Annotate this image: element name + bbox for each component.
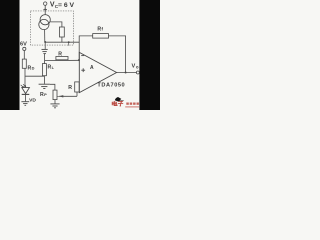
op-amp U1 TDA7050 triangle: [79, 52, 116, 92]
resistor RD: [22, 59, 26, 68]
wire Vcc terminal to mic: [44, 5, 46, 15]
wire RP to ground: [54, 100, 56, 104]
current source (mic) lower circle: [39, 19, 49, 29]
resistor R series (horizontal): [56, 57, 68, 60]
wire input node to series resistor R: [45, 59, 80, 61]
node mic bottom: [44, 41, 46, 43]
current source (mic) upper circle: [40, 15, 50, 25]
svg-text:R: R: [58, 51, 62, 57]
node output: [125, 72, 127, 74]
watermark elecfans logo cap: [115, 97, 124, 102]
diode VD photo arrows: [21, 84, 26, 87]
wire internal resistor down: [61, 37, 63, 42]
wire mic bottom node: [45, 41, 79, 43]
wire current source bottom down: [44, 29, 46, 42]
wire stub below junction: [68, 42, 70, 45]
resistor Rf: [93, 34, 109, 39]
resistor RL: [42, 64, 46, 76]
right black border band: [139, 0, 160, 110]
terminal 6V left: [23, 47, 26, 50]
node inverting input: [78, 59, 80, 61]
svg-text:A: A: [90, 65, 94, 71]
mic internal resistor: [60, 27, 65, 37]
watermark url row (drawn): [125, 106, 139, 107]
plus polarity mark: [43, 8, 47, 12]
wire 6V terminal to RD: [23, 51, 25, 60]
ground (mic): [42, 49, 48, 53]
watermark glyph 子 (drawn): [118, 101, 123, 106]
svg-text:VD: VD: [29, 98, 36, 104]
wire RD to diode VD: [24, 68, 26, 88]
background: [0, 0, 160, 110]
terminal Vcc top: [44, 2, 47, 5]
svg-text:o: o: [136, 64, 139, 69]
svg-text:=6V: =6V: [58, 2, 76, 9]
label Vc=6V: [50, 2, 76, 9]
op-amp plus input mark: [81, 68, 85, 72]
ground (RP): [50, 104, 59, 108]
wire current source to internal resistor: [50, 22, 62, 27]
op-amp minus input mark: [81, 55, 84, 57]
watermark glyph 电 (drawn): [112, 101, 117, 106]
wire mic node down to ground: [44, 42, 46, 49]
wire VD to ground: [24, 94, 26, 101]
wire feedback vertical: [79, 36, 93, 60]
svg-text:R: R: [68, 85, 72, 91]
potentiometer RP body: [53, 90, 57, 100]
svg-text:P: P: [44, 92, 47, 97]
left black border band: [0, 0, 20, 110]
potentiometer RP wiper arrow: [57, 95, 77, 97]
wire down to RL node: [44, 54, 46, 64]
wire RL to ground: [43, 76, 45, 84]
wire wiper to bias resistor R: [76, 92, 78, 96]
ground (VD): [21, 102, 29, 106]
wire VD node to RL bottom: [25, 75, 44, 77]
resistor R bias (vertical): [75, 82, 80, 92]
microphone dashed box: [30, 11, 73, 45]
wire Rf to output node: [109, 36, 126, 73]
svg-text:6V: 6V: [20, 41, 27, 47]
terminal Vo: [136, 71, 139, 74]
diode VD: [22, 88, 30, 95]
svg-text:TDA7050: TDA7050: [97, 82, 125, 88]
node junction to opamp feedback: [68, 41, 70, 43]
svg-text:D: D: [32, 66, 35, 71]
svg-text:V: V: [132, 63, 136, 69]
wire ground node to RP top: [50, 84, 55, 90]
wire output: [117, 72, 137, 74]
watermark small text row (drawn blobs): [126, 103, 139, 105]
ground (RL): [39, 84, 50, 88]
